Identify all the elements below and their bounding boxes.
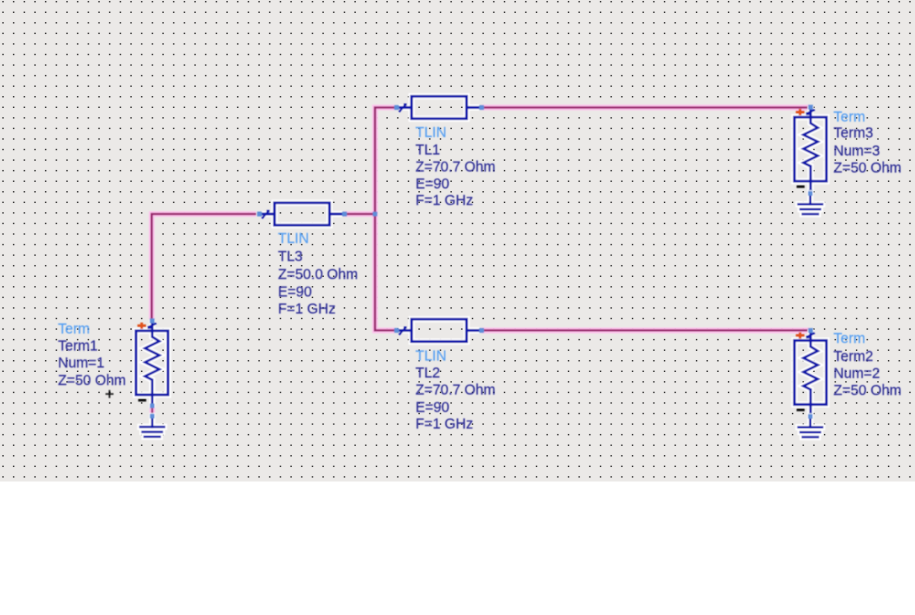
- svg-text:F=1 GHz: F=1 GHz: [278, 301, 336, 317]
- svg-text:Z=50 Ohm: Z=50 Ohm: [58, 373, 126, 389]
- svg-text:F=1 GHz: F=1 GHz: [416, 193, 474, 209]
- svg-text:Num=1: Num=1: [58, 356, 105, 372]
- svg-text:E=90: E=90: [416, 177, 450, 193]
- svg-text:Z=50 Ohm: Z=50 Ohm: [834, 160, 902, 176]
- svg-text:Term2: Term2: [834, 349, 874, 365]
- svg-text:F=1 GHz: F=1 GHz: [416, 416, 474, 432]
- svg-text:Term1: Term1: [58, 338, 98, 354]
- svg-text:TL2: TL2: [416, 366, 441, 382]
- svg-text:Num=2: Num=2: [834, 366, 881, 382]
- svg-text:Z=50.0 Ohm: Z=50.0 Ohm: [278, 267, 358, 283]
- svg-text:Z=70.7 Ohm: Z=70.7 Ohm: [416, 383, 496, 399]
- svg-text:Term: Term: [58, 321, 90, 337]
- svg-text:Term: Term: [834, 331, 866, 347]
- svg-text:Num=3: Num=3: [834, 143, 881, 159]
- svg-text:TL3: TL3: [278, 249, 303, 265]
- svg-text:E=90: E=90: [416, 400, 450, 416]
- svg-text:Z=70.7 Ohm: Z=70.7 Ohm: [416, 159, 496, 175]
- svg-text:TLIN: TLIN: [278, 231, 309, 247]
- svg-text:TLIN: TLIN: [416, 349, 447, 365]
- svg-text:E=90: E=90: [278, 284, 312, 300]
- svg-text:Z=50 Ohm: Z=50 Ohm: [834, 383, 902, 399]
- svg-text:TLIN: TLIN: [416, 125, 447, 141]
- svg-text:TL1: TL1: [416, 142, 441, 158]
- svg-text:Term3: Term3: [834, 125, 874, 141]
- svg-text:Term: Term: [834, 109, 866, 125]
